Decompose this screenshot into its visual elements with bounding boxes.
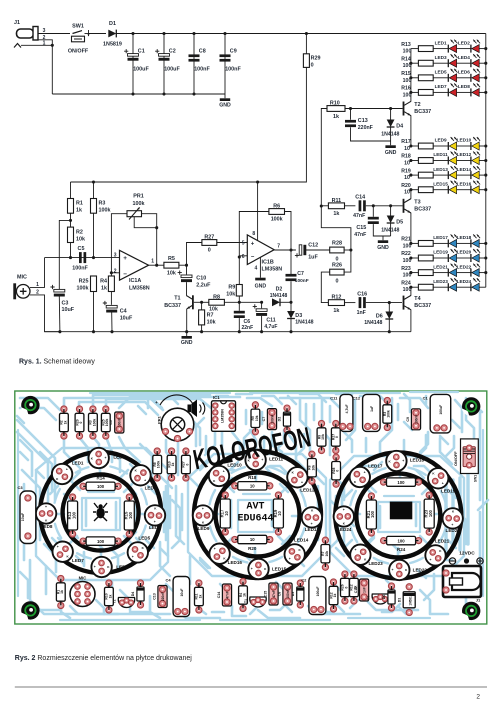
svg-text:0: 0 [335, 436, 339, 438]
ground GND at D5 [382, 236, 384, 240]
svg-text:ON/OFF: ON/OFF [453, 451, 458, 466]
LED LED20 [457, 257, 471, 259]
svg-text:+: + [251, 567, 253, 571]
pcb LED ring 1 outer circle [40, 452, 161, 573]
pcb microphone footprint MIC [70, 582, 95, 607]
right supply rail [485, 34, 487, 288]
svg-text:100: 100 [71, 511, 76, 519]
pcb capacitor C9 [411, 409, 420, 430]
svg-text:100nF: 100nF [225, 67, 241, 73]
top supply rail [116, 33, 486, 35]
svg-text:+: + [155, 400, 158, 405]
wire to right rail [479, 48, 486, 50]
svg-text:0: 0 [336, 279, 339, 285]
pcb resistor R27 [333, 420, 339, 426]
pcb resistor R24 [381, 538, 387, 544]
LED LED23 [433, 286, 448, 288]
svg-text:LED17: LED17 [433, 235, 448, 240]
svg-text:T3: T3 [414, 199, 420, 205]
svg-text:T1: T1 [244, 599, 248, 603]
svg-text:LED20: LED20 [457, 250, 472, 255]
pcb DC jack J1 [443, 566, 481, 597]
pcb resistor R17 [222, 492, 228, 498]
pcb resistor R16 [80, 538, 86, 544]
svg-text:D3: D3 [295, 313, 302, 319]
svg-text:R18: R18 [401, 154, 411, 160]
resistor R25 100k [91, 276, 97, 292]
pcb LED LED21 [425, 545, 445, 565]
svg-text:R9: R9 [228, 285, 235, 291]
pcb LED ring 1 inner circle [63, 475, 139, 551]
pcb resistor R2 [61, 406, 67, 412]
svg-text:LED24: LED24 [337, 527, 352, 532]
pcb capacitor C15 [269, 583, 278, 605]
capacitor C4 10uF [106, 305, 117, 308]
svg-text:T2: T2 [414, 102, 420, 108]
svg-text:100: 100 [403, 49, 412, 55]
pcb capacitor C5 [115, 412, 124, 433]
svg-text:+: + [94, 565, 96, 569]
pcb resistor R21 [368, 493, 374, 499]
pcb LED ring 3 outer circle [335, 453, 461, 579]
svg-text:10k: 10k [76, 236, 85, 242]
input ground rail [52, 93, 225, 95]
svg-text:4,7uF: 4,7uF [264, 324, 277, 330]
svg-text:D3: D3 [291, 592, 295, 597]
capacitor C6 22nF [238, 302, 240, 311]
svg-text:R12: R12 [331, 295, 341, 301]
svg-text:1k: 1k [333, 594, 337, 598]
resistor R11 1k [328, 203, 344, 209]
pcb resistor R8 [309, 451, 315, 457]
svg-text:4,7uF: 4,7uF [345, 404, 349, 413]
svg-text:1N4148: 1N4148 [270, 293, 288, 299]
resistor R10 1k [327, 106, 345, 112]
svg-text:100k: 100k [77, 285, 89, 291]
wire IC1A pin2 feedback [111, 272, 119, 274]
pcb resistor R29 [76, 406, 82, 412]
pcb LED LED17 [350, 467, 370, 487]
transistor T3 BC337 [403, 199, 405, 213]
svg-text:R19: R19 [401, 168, 411, 174]
svg-text:R2: R2 [76, 229, 83, 235]
svg-text:LED7: LED7 [72, 558, 84, 563]
resistor R1 1k [70, 182, 72, 199]
svg-text:47nF: 47nF [354, 232, 366, 238]
pcb resistor R7 [322, 537, 328, 543]
svg-text:C11: C11 [330, 395, 338, 400]
svg-text:SW1: SW1 [474, 475, 478, 482]
svg-text:C11: C11 [266, 318, 275, 324]
resistor R8 10k [209, 299, 225, 305]
svg-text:IC1A: IC1A [129, 278, 141, 284]
svg-text:C4: C4 [120, 309, 127, 315]
svg-text:IC1B: IC1B [262, 259, 274, 265]
capacitor C13 220nF [350, 109, 352, 120]
wire PR1 to output [142, 214, 157, 266]
pcb resistor R28 [333, 454, 339, 460]
wire PR1 wiper [134, 217, 157, 228]
pcb capacitor C16 [360, 579, 369, 601]
resistor R4 1k [110, 273, 112, 276]
pcb transistor T2 [118, 598, 134, 608]
LED LED3 [433, 62, 448, 64]
svg-text:47nF: 47nF [272, 590, 276, 597]
LED LED7 [433, 91, 448, 93]
svg-text:C8: C8 [277, 592, 281, 597]
svg-text:LED6: LED6 [116, 565, 128, 570]
svg-text:1k: 1k [198, 595, 202, 599]
pcb LED LED13 [302, 507, 322, 527]
svg-text:10k: 10k [226, 292, 235, 298]
wire bias to C3 [59, 220, 70, 289]
svg-text:C15: C15 [263, 591, 267, 598]
pcb tuning arc arrow [160, 395, 193, 405]
svg-text:LED4: LED4 [149, 525, 161, 530]
svg-text:10uF: 10uF [120, 316, 133, 322]
svg-text:LED15: LED15 [272, 567, 287, 572]
svg-text:−: − [251, 255, 255, 261]
svg-text:D6: D6 [376, 313, 383, 319]
LED LED24 [457, 286, 471, 288]
wire to right rail [479, 272, 486, 274]
svg-text:LED24: LED24 [457, 279, 472, 284]
svg-text:LED2: LED2 [113, 455, 125, 460]
pcb LED LED24 [334, 506, 354, 526]
svg-text:R16: R16 [401, 86, 411, 92]
svg-text:LED6: LED6 [458, 70, 470, 75]
svg-text:10: 10 [404, 161, 410, 167]
diode D5 1N4148 [390, 206, 392, 216]
svg-text:LED11: LED11 [433, 152, 448, 157]
svg-text:1k: 1k [63, 421, 67, 425]
svg-text:1k: 1k [60, 590, 64, 594]
pcb diode D3 [297, 580, 303, 586]
svg-text:LED9: LED9 [198, 526, 210, 531]
pcb potentiometer PR1 [161, 408, 194, 441]
pcb diode D6 [388, 583, 394, 589]
resistor R7 10k [201, 302, 203, 310]
svg-text:1k: 1k [333, 308, 339, 314]
svg-text:C4: C4 [165, 578, 171, 583]
svg-text:100uF: 100uF [316, 587, 320, 597]
svg-text:R8: R8 [213, 294, 220, 300]
svg-text:C2: C2 [301, 578, 307, 583]
svg-text:0: 0 [336, 256, 339, 262]
svg-text:D1: D1 [398, 598, 402, 603]
svg-text:10: 10 [250, 484, 255, 489]
capacitor C12 1uF [299, 245, 302, 255]
svg-text:8: 8 [252, 231, 255, 237]
pcb speaker icon [188, 400, 198, 418]
svg-text:+: + [144, 478, 146, 482]
svg-text:LED3: LED3 [145, 485, 157, 490]
transistor T2 BC337 [403, 102, 405, 116]
wire IC1B pin4 ground [259, 258, 261, 278]
svg-text:100uF: 100uF [164, 67, 180, 73]
svg-text:+: + [311, 522, 313, 526]
svg-text:R1: R1 [76, 201, 83, 207]
svg-text:+: + [154, 520, 156, 524]
LED LED10 [457, 145, 471, 147]
svg-text:C5: C5 [78, 246, 85, 252]
svg-text:C15: C15 [356, 225, 366, 231]
svg-text:C9: C9 [406, 417, 410, 422]
svg-text:C9: C9 [230, 49, 237, 55]
wire J1 pin1 sleeve [14, 44, 21, 48]
svg-text:+: + [392, 568, 394, 572]
svg-text:220nF: 220nF [161, 592, 165, 601]
wire to right rail [479, 91, 486, 93]
svg-text:10: 10 [250, 537, 255, 542]
pcb LED LED7 [53, 542, 73, 562]
wire T2 emitter to yellow bus [410, 116, 412, 147]
LED LED4 [457, 62, 471, 64]
svg-text:47nF: 47nF [353, 213, 365, 219]
wire T3 collector yellow bus [410, 190, 412, 199]
pcb capacitor C8 [283, 583, 292, 605]
svg-text:LED5: LED5 [435, 70, 447, 75]
pcb LED LED18 [386, 451, 406, 471]
svg-text:R10: R10 [330, 100, 340, 106]
LED LED14 [457, 174, 471, 176]
svg-text:+: + [355, 548, 357, 552]
svg-text:T4: T4 [414, 296, 420, 302]
svg-text:LED1: LED1 [435, 40, 447, 45]
pcb resistor R12 [330, 579, 336, 585]
svg-text:T2: T2 [113, 599, 117, 603]
svg-text:1N5819: 1N5819 [103, 42, 122, 48]
wire J1 pin2 down [38, 40, 52, 94]
svg-text:100nF: 100nF [194, 67, 210, 73]
bottom ground rail [45, 331, 411, 333]
svg-text:IC1: IC1 [213, 395, 220, 400]
pcb transistor T1 [250, 597, 266, 607]
svg-text:EDU644: EDU644 [237, 514, 273, 525]
svg-text:1k: 1k [333, 114, 339, 120]
svg-text:R20: R20 [401, 183, 411, 189]
pcb LED LED8 [36, 503, 56, 523]
svg-text:R24: R24 [401, 280, 411, 286]
svg-text:LED13: LED13 [305, 527, 320, 532]
pcb LED LED9 [193, 505, 213, 525]
svg-text:D4: D4 [396, 123, 403, 129]
wire MIC pin1 [30, 258, 45, 288]
pcb LED LED11 [245, 450, 265, 470]
svg-text:J1: J1 [476, 598, 481, 603]
svg-text:LED21: LED21 [435, 538, 450, 543]
svg-text:C3: C3 [18, 485, 24, 490]
LED LED6 [457, 77, 471, 79]
resistor R29 0 [305, 34, 307, 54]
svg-text:PR1: PR1 [133, 194, 144, 200]
wire J1 pin3 to SW1 [38, 33, 70, 35]
pcb resistor R3 [90, 406, 96, 412]
pcb LED ring 2 outer circle [194, 451, 321, 578]
svg-text:R24: R24 [397, 547, 406, 552]
pcb LED LED12 [287, 467, 307, 487]
pcb resistor R3 [384, 397, 390, 403]
svg-text:LM358N: LM358N [221, 409, 225, 423]
wire T4 emitter [410, 310, 412, 332]
svg-text:10uF: 10uF [21, 512, 25, 521]
svg-text:LED17: LED17 [368, 464, 383, 469]
wire to right rail [479, 286, 486, 288]
svg-text:LED3: LED3 [435, 55, 447, 60]
svg-text:47nF: 47nF [225, 591, 229, 598]
svg-text:100k: 100k [99, 208, 111, 214]
wire IC1B pin8 supply [257, 182, 259, 241]
svg-text:10: 10 [404, 175, 410, 181]
pcb capacitor C2 [309, 577, 326, 615]
svg-text:T1: T1 [174, 296, 180, 302]
svg-text:D2: D2 [278, 417, 282, 422]
LED LED11 [433, 160, 448, 162]
svg-text:100: 100 [97, 484, 105, 489]
pcb resistor R13 [70, 494, 76, 500]
svg-text:1: 1 [151, 259, 154, 265]
svg-text:LED19: LED19 [433, 250, 448, 255]
pcb LED LED6 [91, 557, 111, 577]
wire IC1B output node [274, 249, 296, 251]
pcb LED LED4 [145, 505, 165, 525]
svg-text:100uF: 100uF [439, 405, 443, 415]
svg-text:C10: C10 [196, 275, 206, 281]
svg-text:C5: C5 [109, 420, 113, 425]
resistor R9 10k [236, 285, 242, 297]
pcb copper traces [17, 392, 488, 620]
svg-text:R29: R29 [311, 56, 321, 62]
wire to R27 [187, 243, 202, 266]
svg-text:+: + [202, 507, 204, 511]
svg-text:LED14: LED14 [457, 167, 472, 172]
svg-text:+: + [442, 481, 444, 485]
pcb resistor R9 [318, 420, 324, 426]
svg-text:C6: C6 [244, 319, 251, 325]
LED LED22 [457, 272, 471, 274]
svg-text:Rys. 1. Schemat ideowy: Rys. 1. Schemat ideowy [19, 359, 95, 366]
resistor R6 100k feedback [239, 212, 269, 256]
svg-text:LED14: LED14 [294, 537, 309, 542]
wire IC1B pin6 [239, 255, 247, 257]
svg-text:10: 10 [404, 146, 410, 152]
svg-text:LED21: LED21 [433, 264, 448, 269]
svg-text:+: + [123, 255, 127, 262]
svg-text:10uF: 10uF [180, 589, 184, 597]
svg-text:100nF: 100nF [270, 414, 274, 423]
svg-text:LED18: LED18 [457, 235, 472, 240]
svg-text:SW1: SW1 [72, 24, 84, 30]
svg-text:100: 100 [397, 480, 405, 485]
footer rule [15, 686, 487, 688]
svg-text:0: 0 [208, 247, 211, 253]
pcb resistor R6 [154, 448, 160, 454]
svg-text:1N4148: 1N4148 [364, 320, 382, 326]
svg-text:Rys. 2 Rozmieszczenie elementó: Rys. 2 Rozmieszczenie elementów na płytc… [15, 655, 192, 662]
pcb capacitor C3 [20, 491, 36, 544]
svg-text:C13: C13 [358, 118, 368, 124]
svg-text:C16: C16 [354, 587, 358, 594]
wire T1 emitter to ground [186, 309, 188, 332]
pcb resistor R10 [106, 580, 112, 586]
svg-text:AVT: AVT [246, 502, 264, 513]
pcb diode D2 [284, 405, 290, 411]
svg-text:D1: D1 [109, 21, 116, 27]
svg-text:LM358N: LM358N [129, 285, 150, 291]
svg-text:0: 0 [344, 586, 348, 588]
svg-text:R14: R14 [96, 476, 105, 481]
capacitor C9 100nF [224, 34, 226, 95]
svg-text:LED20: LED20 [446, 528, 461, 533]
svg-text:R22: R22 [401, 251, 411, 257]
svg-text:10k: 10k [321, 434, 325, 440]
wire T1 base [194, 301, 202, 303]
svg-text:100: 100 [428, 509, 433, 517]
svg-text:+: + [301, 480, 303, 484]
pcb resistor R20 [232, 536, 238, 542]
svg-text:10k: 10k [255, 415, 259, 421]
svg-text:BC337: BC337 [414, 109, 431, 115]
pcb resistor R19 [275, 492, 281, 498]
svg-text:+: + [289, 557, 291, 561]
svg-text:1k: 1k [242, 593, 246, 597]
svg-text:10uF: 10uF [62, 307, 75, 313]
svg-text:1k: 1k [76, 208, 82, 214]
svg-text:1nF: 1nF [363, 587, 367, 593]
LED LED2 [457, 48, 471, 50]
svg-text:LED12: LED12 [457, 152, 472, 157]
capacitor C8 100nF [193, 34, 195, 95]
pcb resistor R5 [252, 402, 258, 408]
pcb bug logo glyph [93, 503, 108, 521]
pcb IC1 footprint [212, 401, 236, 432]
LED LED1 [433, 48, 448, 50]
svg-text:+: + [57, 545, 59, 549]
signal line to IC1A [45, 257, 120, 259]
ground GND under C9 [224, 94, 226, 98]
resistor R28 0 [330, 247, 344, 253]
capacitor C2 100uF [163, 34, 165, 95]
wire IC1A output [149, 264, 164, 266]
svg-text:1k: 1k [108, 595, 112, 599]
svg-text:C7: C7 [297, 271, 304, 277]
pcb LED ring 3 inner circle [356, 474, 440, 558]
LED LED17 [433, 242, 448, 244]
resistor R3 100k [93, 182, 95, 199]
op-amp IC1B LM358N [247, 235, 274, 265]
svg-text:+: + [364, 470, 366, 474]
pcb LED LED10 [209, 466, 229, 486]
svg-text:R7: R7 [207, 312, 214, 318]
wire to right rail [479, 257, 486, 259]
wire MIC pin2 to ground [30, 295, 60, 332]
svg-text:R25: R25 [79, 278, 89, 284]
pcb resistor R25 [103, 406, 109, 412]
LED LED18 [457, 242, 471, 244]
svg-text:C12: C12 [353, 395, 361, 400]
svg-text:100nF: 100nF [286, 589, 290, 598]
pcb LED LED16 [209, 544, 229, 564]
svg-text:R26: R26 [332, 263, 342, 269]
resistor R12 1k [328, 300, 344, 306]
svg-text:LED15: LED15 [433, 181, 448, 186]
svg-text:D5: D5 [396, 219, 403, 225]
svg-text:R22: R22 [397, 472, 406, 477]
svg-text:7: 7 [277, 243, 280, 249]
svg-text:100uF: 100uF [133, 67, 149, 73]
pcb mounting hole [21, 396, 39, 414]
PCB board outline [15, 391, 487, 624]
